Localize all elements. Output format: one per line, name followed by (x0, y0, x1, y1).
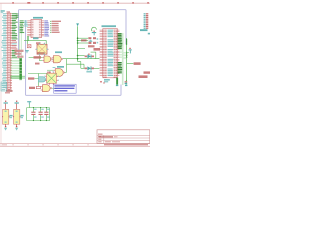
title block rows (97, 134, 150, 136)
wire stubs MCU to bus (11, 59, 22, 79)
U2 left pins (27, 21, 31, 36)
inductor filter L1 (88, 37, 91, 39)
red signal labels right of U2 (50, 21, 61, 33)
D2 label (86, 71, 92, 73)
wire gate output (63, 58, 100, 60)
label left (28, 77, 34, 79)
frame column ticks (12, 2, 149, 145)
gate U4B (55, 51, 62, 53)
cap bank rails (27, 107, 50, 109)
X1 ref label (47, 72, 51, 73)
wires U3 to bus (119, 33, 122, 57)
wire TP (78, 48, 85, 50)
U3 right stubs (117, 30, 119, 75)
gate U4D (43, 85, 51, 92)
connector SV1 rows (144, 13, 149, 29)
wires diodes (78, 55, 85, 57)
wire to reset label (127, 63, 134, 65)
wire bus verticals (19, 26, 21, 59)
IC U3 title (102, 25, 117, 27)
part labels teal (9, 115, 12, 117)
IC IC3 main MCU body (8, 13, 11, 90)
label left of gate (29, 87, 35, 89)
wire pair lower (11, 75, 26, 77)
L1 value (88, 45, 95, 47)
diode D2 (87, 66, 91, 70)
frame bottom text (104, 144, 148, 145)
U2 purple net labels (44, 20, 49, 36)
IC3 reference designator (7, 11, 11, 12)
net labels U2 left (20, 20, 25, 33)
bus net labels upper (118, 33, 123, 49)
power flag (53, 66, 56, 69)
capacitor C1 (32, 108, 34, 112)
inner section frame (26, 20, 121, 95)
wire NAND inputs (29, 57, 43, 59)
SV1 gnd label (140, 29, 148, 31)
supply hook AVCC (92, 27, 97, 31)
buzzer part 2 body (14, 109, 20, 124)
wire top of cluster (28, 73, 47, 75)
rail bottom terminal (125, 81, 128, 82)
label IC1P (15, 50, 24, 52)
IC3 net labels right side (12, 13, 18, 57)
wire to crystal (24, 39, 46, 41)
buzzer part 2 ground (16, 124, 18, 127)
bus bar right of U3 (122, 33, 124, 85)
sheet frame left border (0, 3, 2, 146)
cap bank supply (27, 101, 31, 102)
U3 left stubs (100, 30, 103, 75)
sheet frame bottom border (0, 143, 150, 145)
wire stubs U2 (24, 21, 26, 26)
label GND teal (33, 37, 39, 39)
capacitor C2 (40, 108, 42, 112)
bus bottom terminals (116, 78, 118, 85)
blue note text (54, 85, 75, 86)
label below (35, 63, 40, 65)
ground symbol (25, 50, 29, 51)
supply arrow (76, 23, 79, 26)
bus net labels lower (118, 62, 123, 73)
outer section frame (19, 10, 126, 58)
U2 right pins (42, 21, 44, 36)
net label stack (19, 58, 22, 80)
U2 teal labels left (24, 21, 28, 27)
blue note box (54, 84, 77, 93)
net stub right edge (148, 33, 150, 35)
crystal pins (39, 43, 41, 45)
label TP (94, 48, 101, 51)
wires to L1 (78, 37, 89, 39)
buffer gate teal (39, 77, 46, 82)
title block box (97, 130, 150, 144)
reset rail vertical (126, 38, 128, 81)
vcc rail vertical (77, 26, 79, 61)
buzzer part 1 body (3, 109, 9, 124)
supply VCC symbol (129, 48, 130, 49)
sheet frame top border (0, 2, 150, 4)
buzzer part 1 ground (5, 124, 7, 127)
label RESET box (34, 56, 42, 58)
IC U2 title (33, 17, 43, 19)
label above crystal (36, 42, 41, 44)
IC U2 body (31, 19, 42, 37)
IC3 left pin name labels (1, 13, 6, 87)
IC3 left pins (6, 14, 8, 89)
label Out (1, 10, 5, 11)
U3 bottom labels (104, 79, 110, 80)
L1 label (81, 39, 87, 41)
X1 pins (45, 75, 47, 77)
NAND gate U4A (44, 56, 51, 62)
IC U3 body (103, 29, 118, 78)
resistor R small (27, 45, 31, 48)
diode D1 (87, 54, 91, 58)
IC3 reference label (6, 90, 13, 92)
gate U4C (57, 66, 64, 68)
net labels top (16, 14, 19, 18)
logic IC X1 body (47, 73, 57, 83)
capacitor C3 (45, 108, 47, 112)
title block text (98, 134, 103, 135)
resistor R2 (36, 87, 40, 89)
note table teal (1, 82, 7, 91)
wire gate4 output (52, 87, 57, 89)
crystal value label (37, 52, 45, 54)
buzzer part 1 supply (5, 101, 6, 102)
crystal Q1 body (37, 44, 47, 54)
buzzer part 2 supply (16, 101, 17, 102)
IC3 right pins (10, 14, 12, 89)
label RESET (134, 62, 141, 65)
right edge labels (144, 71, 151, 73)
